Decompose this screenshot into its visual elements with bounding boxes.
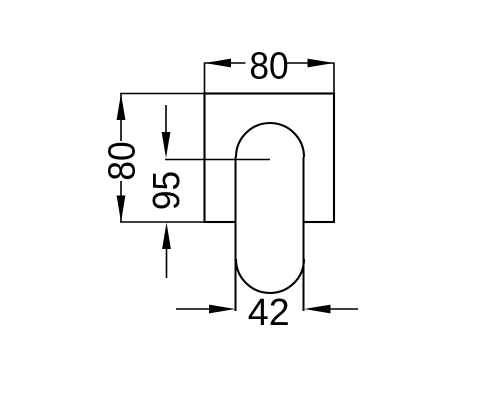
left dim 80: down arrowhead (117, 196, 126, 223)
left dim 80: up arrowhead (117, 94, 126, 121)
left dim 80: lower line segment (120, 181, 122, 222)
dim 42: left-pointing arrowhead (304, 305, 331, 314)
dim 95: up arrowhead at plate bottom (162, 223, 171, 250)
svg-text:80: 80 (249, 44, 288, 86)
dim 95: down arrowhead at hole centerline (162, 132, 171, 158)
svg-text:95: 95 (145, 171, 187, 210)
capsule white fill (hides square bottom edge) (236, 123, 304, 293)
dim 95: lower stem (166, 249, 168, 278)
left dim 80: top extension line (120, 93, 205, 95)
left dim 80: upper line segment (120, 94, 122, 142)
svg-text:42: 42 (248, 292, 290, 334)
left dim 80: bottom extension line (120, 221, 205, 223)
capsule top arc (236, 123, 304, 157)
top dim 80: right extension line (333, 63, 335, 94)
top dim 80: left line segment (205, 62, 246, 64)
dim 42: right-pointing arrowhead (209, 305, 236, 314)
capsule bottom arc (236, 259, 304, 293)
capsule left side + extension to 42 dim (235, 157, 237, 311)
svg-text:80: 80 (100, 141, 142, 180)
leader line to hole center (165, 159, 270, 161)
top dim 80: right arrowhead (308, 59, 335, 68)
capsule right side + extension to 42 dim (303, 157, 305, 311)
dim 42: right line (330, 308, 358, 310)
top dim 80: left extension line (204, 63, 206, 94)
top dim 80: right line segment (287, 62, 334, 64)
dim 95: upper stem (165, 105, 167, 133)
square plate outline 80x80 (205, 94, 335, 223)
dim 42: left line (176, 308, 210, 310)
top dim 80: left arrowhead (205, 59, 232, 68)
